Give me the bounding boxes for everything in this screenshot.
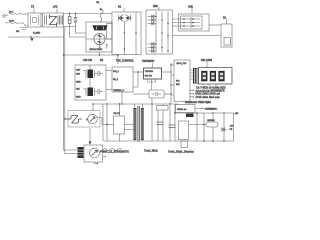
diode DB row3	[148, 22, 157, 25]
capacitor C10 body	[88, 70, 94, 79]
bus primary y104	[93, 103, 178, 105]
svg-text:PWBA_12_SCHEMATIC: PWBA_12_SCHEMATIC	[100, 151, 129, 154]
wire opto down arrow	[89, 128, 91, 142]
note arrow row1	[189, 90, 194, 92]
fan M1 arrow	[92, 150, 98, 155]
wire snubber left	[133, 93, 149, 95]
diode D5	[222, 128, 228, 132]
svg-text:TNY380PN: TNY380PN	[142, 60, 154, 63]
bus bottom y141	[103, 140, 234, 142]
svg-text:GND: GND	[76, 97, 81, 99]
wire bank to SW1 lower	[173, 35, 222, 37]
capacitor C11 plates	[86, 88, 103, 96]
node bank dots	[155, 16, 168, 52]
switch SW1 outer box	[221, 24, 232, 47]
transistor Q1 arrow	[90, 117, 95, 122]
capacitor CX2 marks	[20, 28, 27, 30]
diode DB row2	[148, 18, 157, 21]
opto box	[68, 111, 100, 128]
node snub dot	[170, 93, 171, 94]
transformer T1 core	[138, 106, 139, 142]
note arrow row3	[189, 96, 194, 98]
wire U9 center vertical	[124, 12, 136, 55]
wire vertical x107	[106, 104, 108, 141]
capacitor C15 plates	[169, 125, 176, 128]
wire fan out squiggle	[103, 149, 122, 151]
wire U1 top tick	[152, 63, 154, 68]
svg-text:LF1: LF1	[53, 5, 58, 9]
tiny mark	[103, 156, 106, 157]
ground earth symbol	[30, 38, 33, 41]
svg-text:S1: S1	[223, 16, 227, 19]
node bus G junction	[119, 103, 120, 104]
node bus B junction	[121, 103, 122, 104]
wire U1 right	[162, 71, 172, 73]
T1 secondary gaps	[141, 110, 144, 138]
arrowhead into fan	[89, 142, 92, 145]
mcu U2 box	[174, 60, 190, 102]
wire bridge flying lead squiggle	[100, 9, 103, 22]
filter LF1 box	[43, 13, 64, 27]
wire bank verticals	[156, 12, 168, 53]
snub G box	[114, 116, 125, 134]
wire G to T1	[125, 125, 134, 130]
inductor LF1 Z core	[50, 15, 57, 27]
capacitor C10 plates	[86, 70, 103, 78]
surge block U9 box	[112, 12, 141, 55]
svg-text:PRI_1: PRI_1	[113, 71, 120, 73]
svg-text:+12V_RAIL: +12V_RAIL	[206, 108, 218, 111]
wire H to U3	[189, 124, 207, 126]
diode arrow fills	[121, 16, 129, 19]
node bottom dots	[174, 112, 224, 141]
wire b vertical	[133, 72, 138, 87]
svg-text:+5V: +5V	[235, 113, 239, 115]
svg-text:ACL: ACL	[9, 11, 14, 14]
node zener	[64, 118, 65, 119]
wire jog to snub box	[102, 104, 120, 141]
svg-text:C10 C11: C10 C11	[83, 59, 93, 62]
transformer T1 secondary	[141, 108, 144, 140]
wire A to B links	[106, 71, 112, 90]
wire CN1 pins	[182, 17, 200, 28]
svg-text:MCU_PIC: MCU_PIC	[177, 63, 187, 65]
snubber box C	[149, 90, 164, 98]
wire DS1 tick	[206, 62, 208, 68]
transformer T1 primary	[133, 108, 136, 140]
svg-text:o/p: o/p	[230, 129, 234, 131]
resistor R7 box	[157, 106, 169, 111]
T1 primary gaps	[133, 110, 136, 138]
svg-text:+5V: +5V	[230, 125, 234, 127]
zener ZD1	[65, 116, 82, 124]
wire U1 bottom stubs	[148, 79, 156, 90]
diode DB row5	[148, 46, 157, 49]
wire B down	[121, 92, 123, 104]
wire AC bottom rail	[41, 25, 75, 28]
diode D1 pair	[118, 15, 124, 22]
svg-text:E_GND: E_GND	[33, 32, 41, 34]
node vertical rail tap	[63, 54, 64, 55]
capacitor CX1 plates	[45, 16, 47, 25]
wire fan bottom	[95, 162, 98, 164]
wire vertical x103	[102, 104, 104, 141]
svg-text:CAP: CAP	[76, 69, 81, 72]
wire display bottom ticks	[203, 84, 216, 86]
wire AC top rail	[41, 13, 112, 16]
node RV1 top	[69, 13, 70, 14]
node opto wire junction	[106, 124, 107, 125]
diode arrows in bridge	[98, 35, 101, 43]
node E1 lead tip	[100, 8, 102, 10]
wire secondary verticals	[152, 98, 175, 141]
wire bridge AC in L	[70, 28, 86, 38]
regulator U3 rounded	[206, 122, 218, 127]
wire ACL lead	[5, 15, 8, 17]
surge block inner box	[107, 24, 113, 40]
bus secondary y113	[174, 112, 234, 114]
node fan dot	[97, 163, 98, 164]
svg-text:TNY380: TNY380	[145, 71, 154, 73]
wire cap row1	[83, 65, 90, 71]
wire T1 stubs	[135, 104, 143, 141]
fan winding gaps	[78, 150, 84, 155]
node earth junction	[30, 36, 32, 38]
svg-text:D1: D1	[118, 5, 122, 8]
wire bridge AC in N	[75, 27, 86, 34]
capbank box	[75, 65, 106, 100]
wire sec verticals right	[197, 113, 234, 141]
controller B box	[112, 67, 133, 92]
node ACN lead	[5, 22, 8, 25]
svg-text:R2: R2	[100, 59, 104, 62]
svg-text:ACN: ACN	[9, 19, 14, 22]
wire long vertical L to fan	[64, 27, 78, 150]
fan M1 circle	[90, 148, 100, 158]
wire B to U1	[133, 71, 144, 73]
rectifier BD1 circle	[94, 33, 105, 44]
node ACL input terminal	[3, 15, 5, 17]
inductor L2 neutral squiggle	[9, 22, 28, 26]
fuse F1 element	[31, 15, 39, 25]
digit 8 one	[201, 71, 207, 81]
rectifier BD1 module box	[86, 22, 112, 52]
fan winding bars	[78, 147, 84, 158]
digit 8 two	[210, 71, 216, 81]
polarity marks	[99, 44, 108, 49]
node dot u1r	[170, 71, 171, 72]
node DC minus junction	[99, 54, 100, 55]
digit 8 three	[218, 71, 224, 81]
fan M1 box	[84, 145, 103, 162]
diode D2 pair	[126, 15, 132, 22]
wire BD1 leads	[86, 38, 112, 40]
node bus dots	[106, 103, 107, 104]
diode bridge glyphs	[94, 33, 105, 44]
svg-text:Total_Digit_Display: Total_Digit_Display	[168, 151, 195, 154]
varistor RV1	[68, 14, 71, 28]
switch SW1 inner box	[224, 38, 231, 46]
wire T0 tick	[158, 7, 160, 10]
wire Q1 out	[97, 118, 102, 125]
node CN1 pin dots	[183, 18, 194, 27]
wire long vertical N to fan	[65, 27, 78, 154]
diode DB row4	[148, 42, 157, 45]
node C1 top	[75, 13, 76, 14]
svg-text:C10: C10	[76, 74, 81, 76]
wire DC minus rail	[64, 52, 118, 64]
svg-text:PN 7W: PN 7W	[145, 75, 153, 77]
svg-text:COM drive 5mA seg: COM drive 5mA seg	[196, 96, 220, 99]
svg-text:C11: C11	[76, 89, 81, 91]
svg-text:DB2: DB2	[153, 5, 158, 8]
connector CN1 outer box	[179, 14, 210, 31]
note arrow row2	[189, 93, 194, 95]
connector display ribbon	[193, 68, 199, 84]
wire F1 tick	[33, 9, 35, 14]
inductor L1 line squiggle	[9, 13, 28, 14]
wire U2 display stubs	[190, 70, 194, 79]
node U9 junction 2	[124, 48, 125, 49]
svg-text:Multiplexed 7SEG Digits: Multiplexed 7SEG Digits	[185, 101, 212, 104]
display DS1 box	[199, 68, 233, 85]
svg-text:TRANSF_C: TRANSF_C	[113, 89, 124, 92]
svg-text:R5 C8: R5 C8	[114, 113, 121, 115]
wire LF1 tick	[56, 9, 58, 14]
svg-text:TNY_CONTROL: TNY_CONTROL	[116, 60, 134, 63]
wire SW1 tick	[226, 19, 228, 24]
svg-text:LM7805: LM7805	[207, 120, 215, 122]
capacitor CX3 plates	[58, 16, 62, 25]
diode DB row6	[148, 49, 157, 52]
wire CN1 to SW1	[209, 24, 221, 26]
ribbon white gaps	[195, 69, 198, 84]
wire cap row2	[83, 78, 90, 89]
transistor Q1 circle	[88, 114, 98, 124]
svg-text:Total_Watt: Total_Watt	[144, 150, 158, 153]
svg-text:16F: 16F	[176, 84, 180, 86]
connector CN1 inner box	[181, 16, 203, 29]
wire FG earth	[8, 36, 64, 38]
segdrv box E	[176, 105, 196, 113]
diode DB row1	[148, 15, 157, 18]
svg-text:CN1: CN1	[188, 5, 193, 8]
node sec dots	[196, 112, 197, 113]
fuse F1 box	[28, 13, 41, 27]
wire U9 tick	[123, 8, 125, 12]
box H stub	[181, 141, 188, 148]
node DC rail	[117, 54, 119, 56]
node dot b1	[137, 71, 138, 72]
wire opto top to bus	[92, 104, 94, 111]
svg-text:GND: GND	[76, 82, 81, 84]
heatsink BD1 dark bar	[93, 26, 108, 31]
wire right vertical	[171, 63, 174, 103]
ic U1 box	[144, 68, 162, 79]
regulator box H	[179, 121, 189, 140]
svg-text:PIC: PIC	[176, 81, 180, 83]
capacitor C1	[74, 14, 77, 27]
capacitor C11 body	[88, 88, 94, 97]
plus mark	[86, 118, 89, 121]
svg-text:FG: FG	[16, 31, 19, 33]
wire snubber right	[164, 93, 171, 95]
svg-text:E1: E1	[97, 2, 100, 4]
svg-text:GBU4J 600V: GBU4J 600V	[90, 49, 103, 51]
node U9 junctions	[124, 32, 125, 33]
wire E to ULN arrow	[195, 108, 204, 110]
wire bank to CN1	[173, 19, 183, 26]
dark blob under E	[186, 114, 194, 118]
wire CN1 tick	[191, 8, 193, 14]
snubber inner	[152, 92, 162, 96]
svg-text:7SEG drv: 7SEG drv	[177, 108, 187, 111]
svg-text:FB_2: FB_2	[113, 79, 119, 81]
rectifier bank box	[146, 10, 173, 54]
svg-text:F1: F1	[31, 5, 35, 9]
node opto bus	[92, 103, 93, 104]
capacitor C14 plates	[157, 122, 164, 125]
node right dots	[170, 64, 171, 65]
